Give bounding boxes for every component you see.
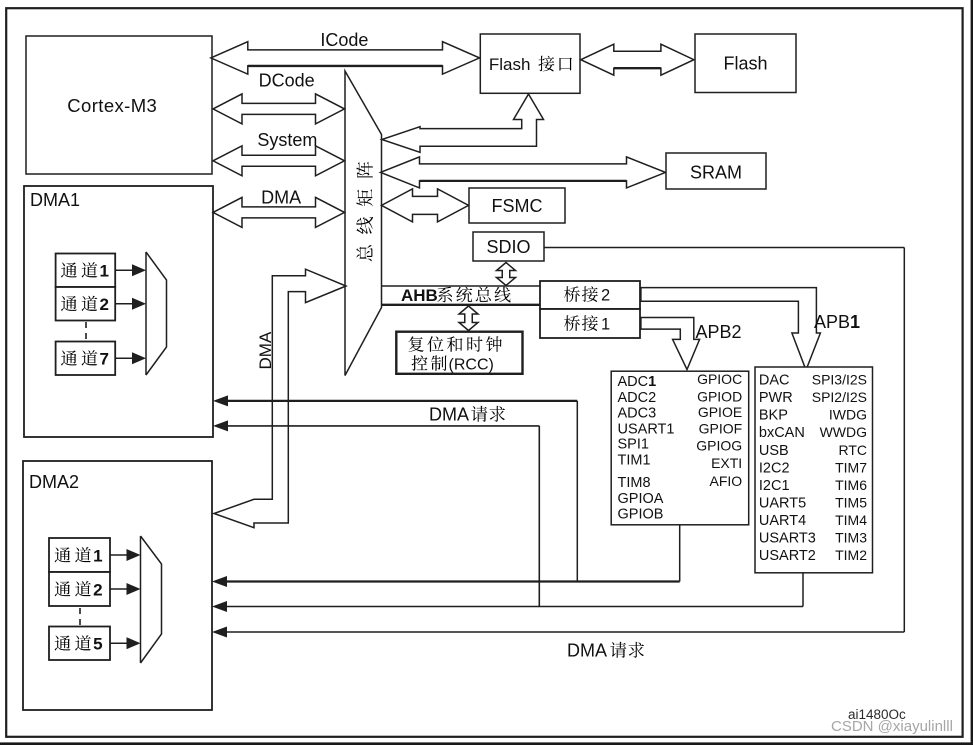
wire SDIO request: [544, 247, 904, 249]
bus arrow ICode: [211, 42, 480, 75]
bus arrow APB1: [641, 288, 821, 370]
svg-text:USB: USB: [759, 443, 789, 459]
label 通道1 dma2: [55, 547, 71, 562]
box DMA1 channel 1: [56, 254, 116, 288]
svg-text:GPIOE: GPIOE: [698, 404, 742, 420]
bus arrow AHB-RCC: [459, 306, 478, 331]
svg-text:TIM1: TIM1: [618, 453, 651, 469]
wire DMA2 request row1: [212, 576, 227, 587]
svg-text:(RCC): (RCC): [449, 357, 494, 374]
svg-text:DAC: DAC: [759, 373, 790, 389]
svg-text:I2C2: I2C2: [759, 460, 790, 476]
svg-text:APB2: APB2: [696, 322, 742, 342]
wire DMA1 ch1 to mux: [115, 269, 133, 271]
svg-text:DMA2: DMA2: [29, 472, 79, 492]
svg-text:FSMC: FSMC: [492, 196, 543, 216]
svg-text:ICode: ICode: [320, 30, 368, 50]
label 桥接2: [564, 286, 580, 302]
bus arrow APB2: [641, 318, 700, 370]
box SDIO: [473, 232, 544, 261]
bus arrow DMA2-matrix: [214, 269, 346, 528]
wire DMA1 request row2 riser: [538, 426, 540, 607]
svg-text:GPIOD: GPIOD: [697, 388, 742, 404]
label 复位和时钟: [408, 336, 423, 352]
svg-text:AHB: AHB: [401, 286, 438, 305]
label 通道7: [61, 350, 77, 365]
label 通道2: [61, 296, 77, 311]
svg-text:SPI2/I2S: SPI2/I2S: [812, 389, 867, 405]
box bridge2 桥接2: [540, 281, 640, 309]
wire DMA2 ch5 to mux: [110, 642, 128, 644]
box APB1 peripherals: [755, 367, 873, 573]
box DMA1: [24, 186, 213, 437]
wire APB1 box down: [802, 573, 804, 607]
svg-text:SPI3/I2S: SPI3/I2S: [812, 372, 867, 388]
bus arrow SRAM: [381, 157, 666, 188]
box SRAM: [666, 153, 766, 189]
box DMA2 channel 5: [49, 627, 110, 661]
svg-text:TIM2: TIM2: [835, 547, 867, 563]
dashed link channels 2-7: [85, 322, 87, 341]
svg-text:ADC2: ADC2: [618, 390, 657, 406]
page edge right: [971, 0, 973, 745]
mux DMA2: [141, 536, 162, 663]
svg-text:Cortex-M3: Cortex-M3: [67, 95, 157, 116]
svg-text:DMA: DMA: [429, 405, 469, 425]
label 通道5: [55, 635, 71, 650]
svg-text:1: 1: [601, 316, 610, 334]
svg-text:SPI1: SPI1: [618, 437, 649, 453]
svg-text:ADC3: ADC3: [618, 405, 657, 421]
bus arrow Flash-FlashIF: [581, 44, 694, 75]
label DMA vertical: [256, 331, 275, 369]
svg-text:GPIOC: GPIOC: [697, 371, 742, 387]
bus arrow Flash bottom shade: [614, 67, 661, 69]
svg-text:2: 2: [601, 287, 610, 305]
svg-text:TIM5: TIM5: [835, 494, 867, 510]
box APB2 peripherals: [611, 371, 749, 525]
bus arrow SDIO-AHB: [497, 263, 516, 286]
box Flash: [695, 34, 796, 93]
svg-text:DMA1: DMA1: [30, 190, 80, 210]
svg-text:CSDN @xiayulinlll: CSDN @xiayulinlll: [831, 718, 953, 735]
box DMA2: [23, 461, 212, 710]
svg-text:UART5: UART5: [759, 495, 806, 511]
bus matrix polygon: [345, 71, 382, 376]
wire DMA1 request row1: [213, 395, 228, 406]
svg-text:Flash: Flash: [489, 55, 531, 74]
svg-text:DCode: DCode: [259, 71, 315, 91]
svg-text:5: 5: [93, 635, 102, 654]
svg-text:RTC: RTC: [838, 442, 867, 458]
svg-text:WWDG: WWDG: [820, 424, 867, 440]
AHB bus bottom line: [382, 304, 541, 306]
svg-text:USART3: USART3: [759, 531, 816, 547]
svg-text:GPIOF: GPIOF: [699, 421, 743, 437]
svg-text:Flash: Flash: [723, 54, 767, 74]
wire DMA1 request row2: [213, 420, 228, 431]
mux DMA1 left edge: [145, 252, 147, 375]
svg-text:GPIOG: GPIOG: [696, 438, 742, 454]
svg-text:System: System: [257, 130, 317, 150]
box DMA1 channel 7: [56, 342, 116, 376]
bus elbow matrix-FlashIF: [382, 94, 544, 152]
svg-text:TIM3: TIM3: [835, 530, 867, 546]
svg-text:DMA: DMA: [567, 641, 607, 661]
mux DMA1: [146, 252, 167, 375]
svg-text:TIM8: TIM8: [618, 475, 651, 491]
svg-text:GPIOB: GPIOB: [618, 506, 664, 522]
box DMA2 channel 1: [49, 538, 110, 572]
svg-text:BKP: BKP: [759, 408, 788, 424]
svg-text:2: 2: [93, 580, 102, 599]
mux DMA2 left edge: [140, 536, 142, 663]
svg-text:USART1: USART1: [618, 422, 675, 438]
svg-text:AFIO: AFIO: [710, 473, 743, 489]
wire DMA1 request row1 riser: [576, 401, 578, 582]
bus arrow ICode bottom shade: [248, 65, 443, 67]
page edge bottom: [0, 742, 973, 745]
svg-text:TIM4: TIM4: [835, 512, 867, 528]
svg-text:IWDG: IWDG: [829, 407, 867, 423]
svg-text:ADC1: ADC1: [618, 374, 657, 390]
box DMA1 channel 2: [56, 287, 116, 321]
svg-text:TIM7: TIM7: [835, 459, 867, 475]
svg-text:DMA: DMA: [261, 187, 301, 207]
svg-text:1: 1: [93, 546, 102, 565]
bus arrow FSMC: [382, 189, 469, 222]
label 通道1: [61, 262, 77, 277]
box Flash interface: [480, 34, 580, 93]
svg-text:2: 2: [100, 295, 109, 314]
svg-text:USART2: USART2: [759, 548, 816, 564]
wire DMA2 ch1 to mux: [110, 554, 128, 556]
svg-text:GPIOA: GPIOA: [618, 491, 664, 507]
bus arrow DCode: [213, 94, 345, 124]
wire DMA1 ch7 to mux: [115, 357, 133, 359]
wire APB2 box down: [679, 525, 681, 582]
label 控制(RCC): [412, 355, 428, 371]
svg-text:SRAM: SRAM: [690, 163, 742, 183]
svg-text:bxCAN: bxCAN: [759, 425, 805, 441]
box RCC: [396, 332, 522, 374]
label 桥接1: [564, 315, 580, 331]
svg-text:1: 1: [100, 262, 109, 281]
svg-text:PWR: PWR: [759, 390, 793, 406]
box FSMC: [469, 188, 565, 223]
svg-text:APB: APB: [814, 312, 850, 332]
svg-text:I2C1: I2C1: [759, 478, 790, 494]
AHB bus top line: [382, 285, 541, 287]
bus arrow System: [213, 146, 345, 176]
svg-text:UART4: UART4: [759, 513, 806, 529]
wire DMA1 ch2 to mux: [115, 303, 133, 305]
box Cortex-M3: [26, 36, 212, 174]
bus arrow SRAM bottom shade: [420, 180, 627, 182]
wire DMA2 ch2 to mux: [110, 588, 128, 590]
box bridge1 桥接1: [540, 309, 640, 338]
svg-text:EXTI: EXTI: [711, 455, 742, 471]
wire DMA2 request row2: [212, 601, 227, 612]
wire DMA2 request row3: [212, 627, 227, 638]
box DMA2 channel 2: [49, 572, 110, 606]
dashed link channels 2-5: [79, 608, 81, 625]
svg-text:DMA: DMA: [256, 331, 275, 369]
wire SDIO request vertical: [903, 248, 905, 633]
svg-text:1: 1: [850, 312, 860, 332]
label 通道2 dma2: [55, 581, 71, 596]
svg-text:TIM6: TIM6: [835, 477, 867, 493]
svg-text:7: 7: [100, 350, 109, 369]
svg-text:SDIO: SDIO: [486, 237, 530, 257]
label 总线矩阵: [356, 162, 373, 261]
bus arrow DMA: [213, 197, 345, 227]
